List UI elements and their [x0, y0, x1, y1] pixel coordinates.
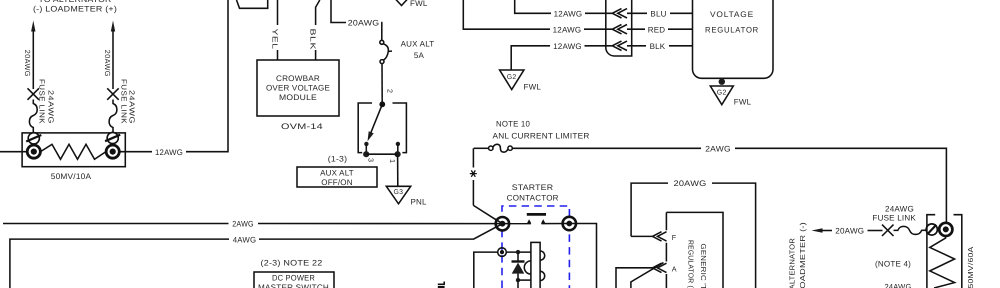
- contact bar: [527, 213, 546, 216]
- svg-text:12AWG: 12AWG: [553, 42, 582, 51]
- svg-text:AUX ALT: AUX ALT: [401, 40, 435, 49]
- svg-text:FWL: FWL: [734, 98, 752, 107]
- svg-text:A: A: [672, 264, 677, 273]
- wires label to connector: [585, 12, 612, 14]
- svg-text:20AWG: 20AWG: [835, 227, 864, 236]
- svg-text:CONTACTOR: CONTACTOR: [507, 194, 559, 203]
- switch box AUX ALT OFF/ON: [297, 167, 377, 187]
- wire label to fuse X: [868, 230, 883, 232]
- svg-text:MODULE: MODULE: [279, 93, 317, 102]
- diode CR1: [512, 252, 525, 280]
- crowbar over voltage module U1 box: [257, 60, 339, 116]
- bottom edge fragment (cut symbol): [438, 282, 444, 285]
- wire A horizontal: [616, 268, 653, 288]
- svg-text:ANL CURRENT LIMITER: ANL CURRENT LIMITER: [493, 132, 590, 141]
- junction dot bottom: [516, 278, 520, 282]
- svg-text:STARTER: STARTER: [512, 183, 554, 192]
- wire left 20AWG lead: [32, 30, 34, 89]
- svg-text:12AWG: 12AWG: [554, 10, 583, 19]
- wire F run with 20AWG: [631, 183, 668, 236]
- wire 20AWG to breaker: [331, 0, 346, 23]
- wire BLU lead riser: [515, 0, 551, 13]
- wire corner into limiter: [474, 147, 489, 149]
- wire 2AWG bus to contactor: [258, 223, 531, 225]
- contact 3: [364, 142, 368, 146]
- connector pin chevrons (BLU row): [612, 9, 627, 18]
- svg-text:4AWG: 4AWG: [233, 235, 257, 244]
- node dot under regulator: [719, 79, 725, 85]
- svg-text:20AWG: 20AWG: [348, 19, 380, 28]
- svg-text:FUSE LINK: FUSE LINK: [872, 214, 916, 223]
- terminal B (left bullet): [495, 217, 511, 231]
- switch box DC POWER MASTER SWITCH: [254, 272, 334, 288]
- wire YEL lead: [277, 0, 279, 25]
- wires labels to regulator: [670, 12, 693, 14]
- generic regulator U3 box outline: [666, 212, 723, 288]
- bullet terminal (right shunt): [939, 223, 952, 236]
- svg-text:OFF/ON: OFF/ON: [321, 178, 352, 187]
- wire coil terminal to coil: [506, 251, 531, 253]
- svg-text:BLK: BLK: [309, 29, 318, 51]
- svg-text:OVM-14: OVM-14: [281, 122, 323, 131]
- svg-text:12AWG: 12AWG: [155, 148, 183, 157]
- svg-text:REGULATOR (N: REGULATOR (N: [687, 240, 696, 288]
- svg-text:FUSE LINK: FUSE LINK: [38, 79, 47, 124]
- wire diagonal to contactor terminal: [473, 205, 500, 222]
- svg-text:(-) LOADMETER (+): (-) LOADMETER (+): [33, 5, 117, 14]
- arrow up (left 20AWG lead): [31, 21, 35, 32]
- wire BLK lead to ground: [511, 46, 550, 70]
- fuse X (right lead): [107, 88, 119, 100]
- svg-text:OVER VOLTAGE: OVER VOLTAGE: [266, 84, 330, 93]
- svg-text:TO ALTERNATOR: TO ALTERNATOR: [39, 0, 112, 4]
- wire 4AWG corner down: [10, 239, 229, 288]
- voltage regulator U2 box: [693, 0, 774, 78]
- switch bracket: [358, 103, 372, 153]
- wire 2AWG bus left: [3, 223, 229, 225]
- svg-text:LOADMETER (-): LOADMETER (-): [798, 222, 807, 288]
- svg-text:20AWG: 20AWG: [674, 179, 707, 188]
- wires connector to labels: [627, 12, 647, 14]
- svg-text:G3: G3: [394, 189, 404, 196]
- svg-text:G2: G2: [717, 90, 727, 97]
- svg-text:MASTER SWITCH: MASTER SWITCH: [258, 283, 329, 288]
- svg-text:1: 1: [388, 159, 397, 163]
- wire into breaker: [380, 23, 383, 41]
- screw terminal (right): [105, 132, 120, 143]
- bullet terminal (right): [106, 145, 119, 158]
- wire right terminal down: [576, 224, 597, 288]
- ground FWL (top, cut): [395, 0, 428, 8]
- svg-text:BLK: BLK: [650, 42, 666, 51]
- svg-text:(2-3) NOTE 22: (2-3) NOTE 22: [261, 259, 323, 268]
- svg-text:RED: RED: [648, 25, 666, 34]
- svg-text:24AWG: 24AWG: [47, 90, 56, 124]
- svg-text:YEL: YEL: [270, 29, 279, 50]
- svg-text:G2: G2: [507, 74, 517, 81]
- wire BLK lead: [316, 0, 320, 25]
- arrow left (20AWG to loadmeter): [812, 228, 823, 232]
- svg-text:VOLTAGE: VOLTAGE: [710, 10, 754, 19]
- svg-text:2AWG: 2AWG: [705, 144, 731, 153]
- svg-text:20AWG: 20AWG: [23, 50, 32, 77]
- svg-text:GENERIC 'TY: GENERIC 'TY: [699, 244, 708, 288]
- connector J1 housing: [606, 0, 632, 56]
- wire into F chevron: [631, 235, 653, 237]
- coil core: [531, 242, 540, 288]
- connector pin chevrons (BLK row): [612, 41, 627, 50]
- svg-text:50MV/10A: 50MV/10A: [51, 172, 92, 181]
- bullet terminal (left): [27, 145, 40, 158]
- wire right 20AWG lead: [112, 30, 114, 89]
- svg-text:50MV/60A: 50MV/60A: [966, 247, 975, 288]
- asterisk mark: [470, 170, 477, 176]
- connector housing fragment (top edge): [237, 0, 268, 8]
- wire between contacts: [366, 153, 397, 155]
- wire squiggle fuse link (left): [29, 100, 37, 134]
- svg-text:REGULATOR: REGULATOR: [705, 26, 759, 35]
- wire squiggle fuse link (right): [109, 100, 117, 134]
- wire breaker to switch: [381, 64, 383, 103]
- svg-text:DC POWER: DC POWER: [272, 274, 315, 283]
- shunt R2 bracket: [927, 215, 935, 288]
- contact 1: [396, 142, 400, 146]
- ground G3 PNL: [386, 186, 427, 206]
- wire limiter to 2AWG label: [512, 147, 701, 149]
- svg-text:CROWBAR: CROWBAR: [276, 74, 320, 83]
- node 2 dot: [379, 101, 385, 107]
- wire 4AWG to contactor diagonal: [259, 224, 502, 239]
- svg-text:3: 3: [366, 158, 375, 162]
- wire arrow to label: [821, 230, 832, 232]
- wire contact 1 to ground: [397, 154, 399, 186]
- svg-text:2: 2: [385, 89, 394, 93]
- svg-text:FWL: FWL: [524, 82, 542, 91]
- svg-text:5A: 5A: [414, 51, 425, 60]
- wire squiggle fuse link: [894, 226, 927, 234]
- svg-text:FUSE LINK: FUSE LINK: [119, 79, 128, 124]
- wire bottom to coil: [518, 279, 531, 281]
- wire 12AWG horizontal through shunt: [0, 151, 26, 153]
- ground G2 FWL (under regulator): [710, 86, 751, 107]
- svg-text:(1-3): (1-3): [328, 155, 348, 164]
- wire 20AWG to field riser: [712, 183, 756, 288]
- screw terminal (left): [26, 133, 41, 144]
- svg-text:F: F: [672, 233, 677, 242]
- junction dot top: [516, 250, 520, 254]
- resistor zigzag (shunt element): [41, 144, 107, 159]
- svg-text:24AWG: 24AWG: [885, 204, 914, 213]
- wire asterisk drop: [472, 148, 474, 167]
- fuse X (right shunt): [882, 225, 894, 236]
- coil terminal: [498, 248, 507, 257]
- svg-text:24AWG: 24AWG: [885, 283, 912, 288]
- shunt R1 bracket box: [22, 133, 125, 167]
- wire A diagonal: [631, 263, 664, 288]
- coil loops: [524, 251, 544, 281]
- arrow up (right 20AWG lead): [111, 21, 115, 32]
- svg-text:TO ALTERNATOR: TO ALTERNATOR: [788, 238, 797, 288]
- svg-text:NOTE 10: NOTE 10: [496, 120, 530, 129]
- svg-text:20AWG: 20AWG: [103, 50, 112, 77]
- pin F chevrons: [653, 232, 667, 241]
- svg-text:12AWG: 12AWG: [553, 25, 582, 34]
- wire 12AWG to riser: [186, 0, 228, 152]
- svg-text:BLU: BLU: [650, 10, 666, 19]
- fuse X (left lead): [28, 88, 40, 100]
- ANL current limiter F1: [489, 144, 513, 152]
- terminal S (right bullet): [562, 217, 578, 231]
- circuit breaker CB1 AUX ALT 5A: [380, 40, 392, 63]
- switch arm with arrowhead: [371, 104, 383, 133]
- blue dashed enclosure: [502, 206, 569, 288]
- wire coil terminal left and down: [474, 252, 498, 288]
- fixed contact points: [527, 219, 531, 223]
- svg-text:AUX ALT: AUX ALT: [320, 169, 354, 178]
- svg-text:(NOTE 4): (NOTE 4): [875, 260, 911, 269]
- pin A chevrons: [653, 263, 667, 272]
- resistor zigzag (right shunt element): [930, 236, 955, 288]
- connector pin chevrons (RED row): [612, 25, 627, 34]
- svg-text:2AWG: 2AWG: [232, 220, 254, 229]
- svg-text:PNL: PNL: [411, 198, 428, 207]
- ground G2 FWL (left): [500, 70, 542, 91]
- screw terminal (right shunt): [926, 224, 937, 235]
- wire RED lead riser: [463, 0, 550, 29]
- svg-text:FWL: FWL: [410, 0, 428, 8]
- wire 2AWG to right shunt: [735, 148, 946, 224]
